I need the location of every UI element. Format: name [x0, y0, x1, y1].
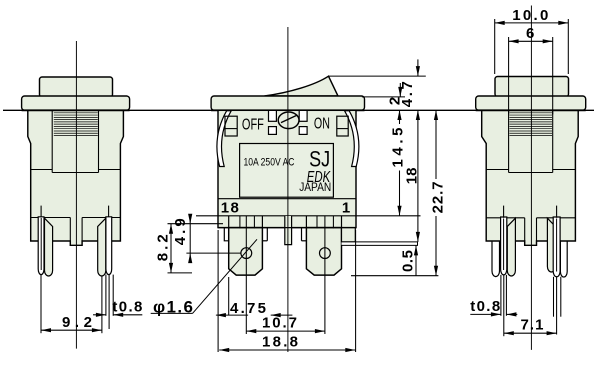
svg-text:1: 1 — [342, 199, 350, 216]
right terminal lug front — [306, 228, 341, 276]
svg-text:JAPAN: JAPAN — [299, 180, 331, 194]
svg-text:10.0: 10.0 — [512, 7, 548, 24]
svg-text:18: 18 — [404, 168, 421, 185]
dimension t0.8 right view — [470, 298, 517, 317]
extension lines for 6 — [509, 37, 553, 114]
side solder tab — [342, 242, 418, 246]
extension line body left — [217, 230, 219, 352]
left lug crimp slots — [240, 216, 255, 229]
right view lug L — [507, 218, 515, 276]
label phi 1.6 — [153, 298, 193, 317]
right clip window — [337, 116, 348, 136]
left view pin B — [106, 217, 112, 275]
leader line phi 1.6 — [151, 239, 257, 313]
svg-text:0.5: 0.5 — [399, 250, 416, 272]
front view rocker actuator — [265, 76, 339, 96]
extension line hole center left — [186, 252, 241, 254]
left view rocker button cap — [40, 77, 113, 97]
right view lug R — [547, 218, 555, 272]
right view pin L — [501, 217, 507, 275]
extension line teeth bottom left — [168, 223, 224, 225]
svg-text:22.7: 22.7 — [430, 181, 447, 213]
extension line teeth left — [196, 215, 218, 217]
extension line hole2 center — [324, 216, 326, 334]
left view pin inner lines — [41, 218, 109, 270]
right view terminal tab L — [492, 241, 500, 276]
front view base bottom edge — [218, 227, 356, 229]
svg-text:9.2: 9.2 — [62, 314, 92, 331]
left view vertical centerline — [75, 41, 77, 349]
dimension 9.2 — [41, 314, 102, 333]
front view body lower split — [218, 199, 356, 216]
right bezel bottom edge — [476, 109, 586, 111]
right view base split line — [486, 218, 575, 241]
left view inner recess — [52, 110, 98, 172]
svg-text:4.9: 4.9 — [172, 218, 189, 245]
extension line lug bottom left — [168, 272, 193, 274]
left view ribbed neck — [54, 113, 98, 136]
right view pin inner lines — [504, 219, 557, 272]
step right of left lug — [262, 228, 267, 241]
dimension 8.2 — [154, 224, 173, 273]
extension line rocker top — [329, 75, 426, 77]
svg-text:φ1.6: φ1.6 — [153, 298, 193, 317]
right view vertical centerline — [530, 6, 532, 350]
svg-text:4.75: 4.75 — [230, 300, 266, 317]
middle tongue — [285, 216, 292, 245]
right view pin extension wires — [501, 275, 561, 336]
step left of right lug — [302, 228, 307, 241]
dimension 0.5 — [399, 245, 418, 275]
dimension 18.8 — [219, 333, 355, 352]
dimension 22.7 — [430, 110, 447, 276]
dimension 2 — [386, 83, 403, 105]
right view body outline — [482, 110, 579, 245]
right view pin R — [553, 217, 560, 277]
extension line bezel top — [362, 96, 405, 98]
left view terminal lug A — [45, 218, 53, 276]
svg-text:ON: ON — [314, 115, 330, 132]
left bezel bottom edge — [22, 109, 130, 111]
dimension 10.7 — [246, 314, 325, 333]
rating label box — [240, 144, 334, 198]
label JAPAN — [299, 180, 331, 194]
front view bezel — [211, 96, 364, 110]
lug edge lines in band — [229, 216, 342, 228]
dimension 6 — [509, 25, 553, 43]
dimension 4.9 — [172, 214, 192, 263]
dimension 10.0 — [495, 7, 569, 25]
svg-text:10.7: 10.7 — [262, 314, 297, 331]
svg-text:SJ: SJ — [309, 146, 330, 171]
extension line teeth right — [356, 215, 421, 217]
left snap clip — [217, 111, 231, 167]
left view pin guide stubs — [41, 206, 109, 218]
front bezel bottom edge — [211, 109, 364, 111]
rocker slot tab right — [299, 110, 307, 134]
front view vertical centerline — [287, 27, 289, 352]
OFF marking — [242, 117, 264, 134]
left terminal lug front — [229, 228, 263, 276]
right side piece — [342, 228, 356, 242]
left view body step lines — [31, 169, 121, 171]
right lug crimp slots — [317, 216, 333, 229]
right view rocker button cap — [495, 77, 569, 97]
left clip window — [225, 116, 237, 136]
pivot screw — [278, 112, 299, 129]
right lug hole — [320, 248, 331, 259]
right view pin guide stubs — [504, 206, 557, 218]
svg-text:6: 6 — [526, 25, 534, 42]
right view ribbed neck — [510, 113, 553, 136]
left terminal step — [224, 228, 228, 241]
dimension 7.1 — [504, 316, 557, 335]
label SJ — [309, 146, 330, 171]
dimension 18 — [404, 110, 421, 242]
extension line body right — [355, 230, 357, 352]
dimension 14.5 — [390, 110, 407, 216]
terminal number 1 — [342, 199, 350, 216]
dimension 4.7 — [399, 59, 420, 107]
left view bezel — [22, 96, 130, 110]
right view bezel — [476, 96, 586, 110]
right snap clip — [345, 111, 359, 167]
right view tab R — [560, 241, 567, 277]
svg-text:4.7: 4.7 — [399, 81, 416, 107]
svg-text:7.1: 7.1 — [521, 316, 544, 333]
extension line lug left edge — [228, 277, 230, 316]
svg-text:OFF: OFF — [242, 117, 264, 134]
ON marking — [314, 115, 330, 132]
left view terminal lug B — [98, 218, 106, 276]
right view body step lines — [486, 169, 575, 171]
rocker slot tab left — [269, 110, 277, 134]
svg-text:10A 250V AC: 10A 250V AC — [244, 157, 295, 169]
left view body outline — [28, 110, 124, 245]
terminal number 18 — [221, 200, 239, 217]
panel mounting line — [3, 109, 594, 111]
extension line hole1 center — [245, 216, 247, 334]
left view pin A — [38, 217, 44, 275]
right view inner recess — [509, 110, 553, 172]
label 10A 250V AC — [244, 157, 295, 169]
extension line terminal bottom — [351, 275, 438, 277]
dimension t0.8 left view — [93, 299, 142, 317]
svg-text:14.5: 14.5 — [390, 128, 407, 168]
left view pin extension wires — [41, 275, 113, 334]
dimension 4.75 — [216, 300, 293, 317]
extension lines for 10.0 — [495, 19, 569, 74]
svg-text:8.2: 8.2 — [154, 234, 171, 261]
svg-text:18.8: 18.8 — [262, 333, 298, 350]
svg-text:18: 18 — [221, 200, 239, 217]
left lug hole — [241, 248, 252, 259]
label EDK — [307, 169, 331, 186]
left view base split line — [31, 218, 121, 242]
front view body — [218, 110, 356, 227]
